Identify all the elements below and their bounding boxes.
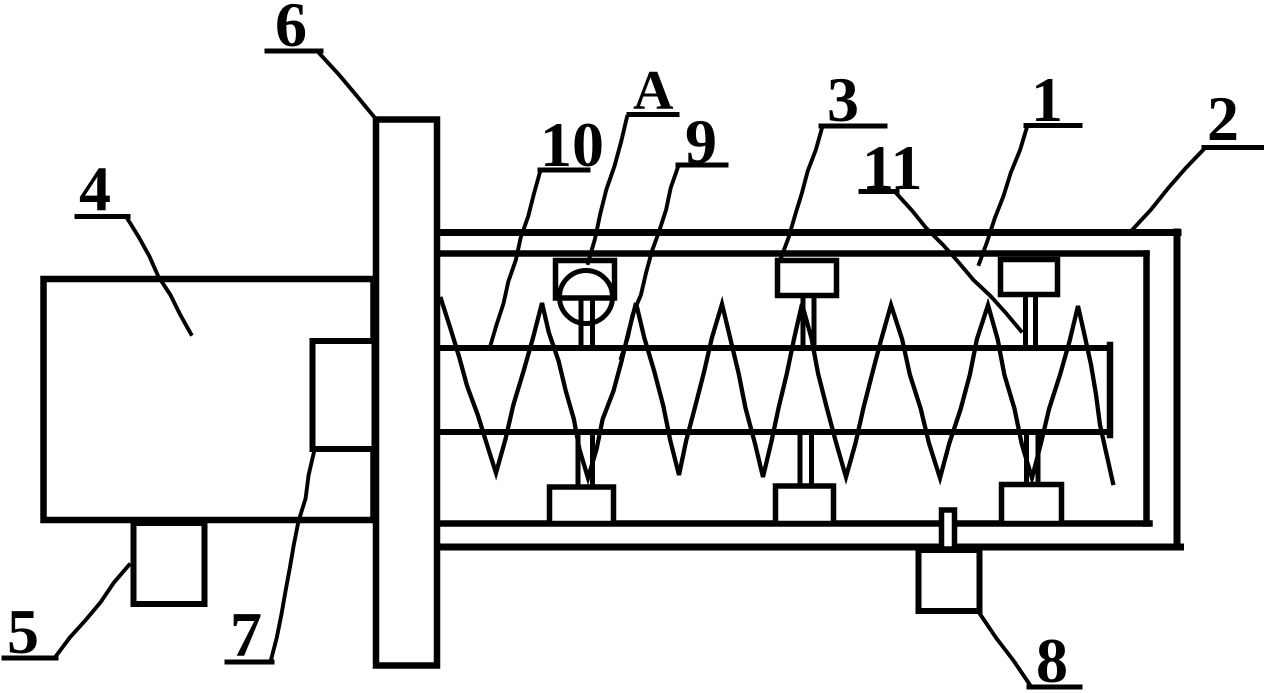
damper block 3 (top middle) [778, 261, 837, 296]
label 5 underline [4, 656, 56, 661]
label 6 text [275, 0, 307, 60]
label 6 underline [267, 49, 321, 54]
label 1 leader line [979, 127, 1027, 264]
label 5 text [7, 596, 39, 667]
rotating shaft 9 right end cap [1107, 345, 1114, 435]
svg-text:7: 7 [230, 599, 262, 670]
svg-text:8: 8 [1036, 625, 1068, 693]
detail A stem right line [590, 300, 595, 346]
mounting plate 6 [376, 120, 437, 666]
label 3 text [827, 64, 859, 135]
label 11 leader line [896, 193, 1021, 331]
label 7 underline [227, 660, 272, 665]
label 9 underline [678, 163, 726, 168]
discharge box 8 [919, 550, 980, 611]
bottom block middle [776, 486, 834, 524]
label A text [633, 60, 674, 122]
label 10 text [540, 109, 604, 180]
housing inner liner right wall [1143, 254, 1150, 524]
detail A stem left line [579, 300, 584, 346]
connecting rod 11 stem [1026, 296, 1036, 346]
label 10 underline [540, 168, 588, 173]
label 7 leader line [271, 452, 314, 660]
housing 2 outer shell right wall [1174, 232, 1181, 547]
label 3 leader line [781, 128, 822, 258]
housing 2 outer shell top wall [437, 229, 1178, 236]
bottom block left stem [578, 434, 593, 486]
label 10 leader line [490, 172, 540, 347]
rotating shaft 9 top edge [440, 345, 1110, 351]
detail A bearing box [556, 261, 615, 299]
label 8 leader line [980, 614, 1030, 685]
housing inner liner bottom wall [437, 520, 1150, 527]
detail A bearing circle [560, 271, 613, 324]
label 4 underline [77, 214, 128, 219]
label 4 text [79, 153, 111, 224]
label 1 text [1031, 64, 1063, 135]
bottom block right [1002, 485, 1062, 524]
svg-text:4: 4 [79, 153, 111, 224]
bottom block middle stem [800, 434, 812, 485]
discharge tube stub [942, 510, 955, 549]
label 9 text [685, 106, 717, 177]
label 2 leader line [1133, 149, 1204, 229]
label 6 leader line [319, 53, 375, 118]
label 1 underline [1026, 123, 1080, 128]
coupling step box 7 [313, 341, 375, 449]
screw blade 10 (helical auger zigzag) [441, 299, 1113, 483]
support foot 5 [134, 523, 205, 604]
label 8 underline [1029, 685, 1080, 690]
label 5 leader line [56, 565, 129, 656]
label 11 text [862, 132, 922, 203]
svg-text:2: 2 [1207, 83, 1239, 154]
label 7 text [230, 599, 262, 670]
damper block 3 stem [803, 297, 814, 346]
label 2 text [1207, 83, 1239, 154]
bottom block right stem [1027, 434, 1039, 483]
label A underline [629, 112, 677, 117]
label A leader line [588, 117, 627, 263]
motor 4 housing [44, 279, 374, 520]
label 2 underline [1204, 145, 1262, 150]
rotating shaft 9 bottom edge [440, 429, 1110, 435]
damper block near 1 (top right) [1001, 260, 1058, 295]
housing inner liner top wall [437, 250, 1147, 257]
label 8 text [1036, 625, 1068, 693]
label 9 leader line [621, 167, 678, 358]
housing 2 outer shell bottom wall [437, 544, 1181, 551]
bottom block left [550, 487, 614, 524]
label 11 underline [861, 189, 897, 194]
label 4 leader line [127, 218, 191, 334]
label 3 underline [821, 124, 885, 129]
